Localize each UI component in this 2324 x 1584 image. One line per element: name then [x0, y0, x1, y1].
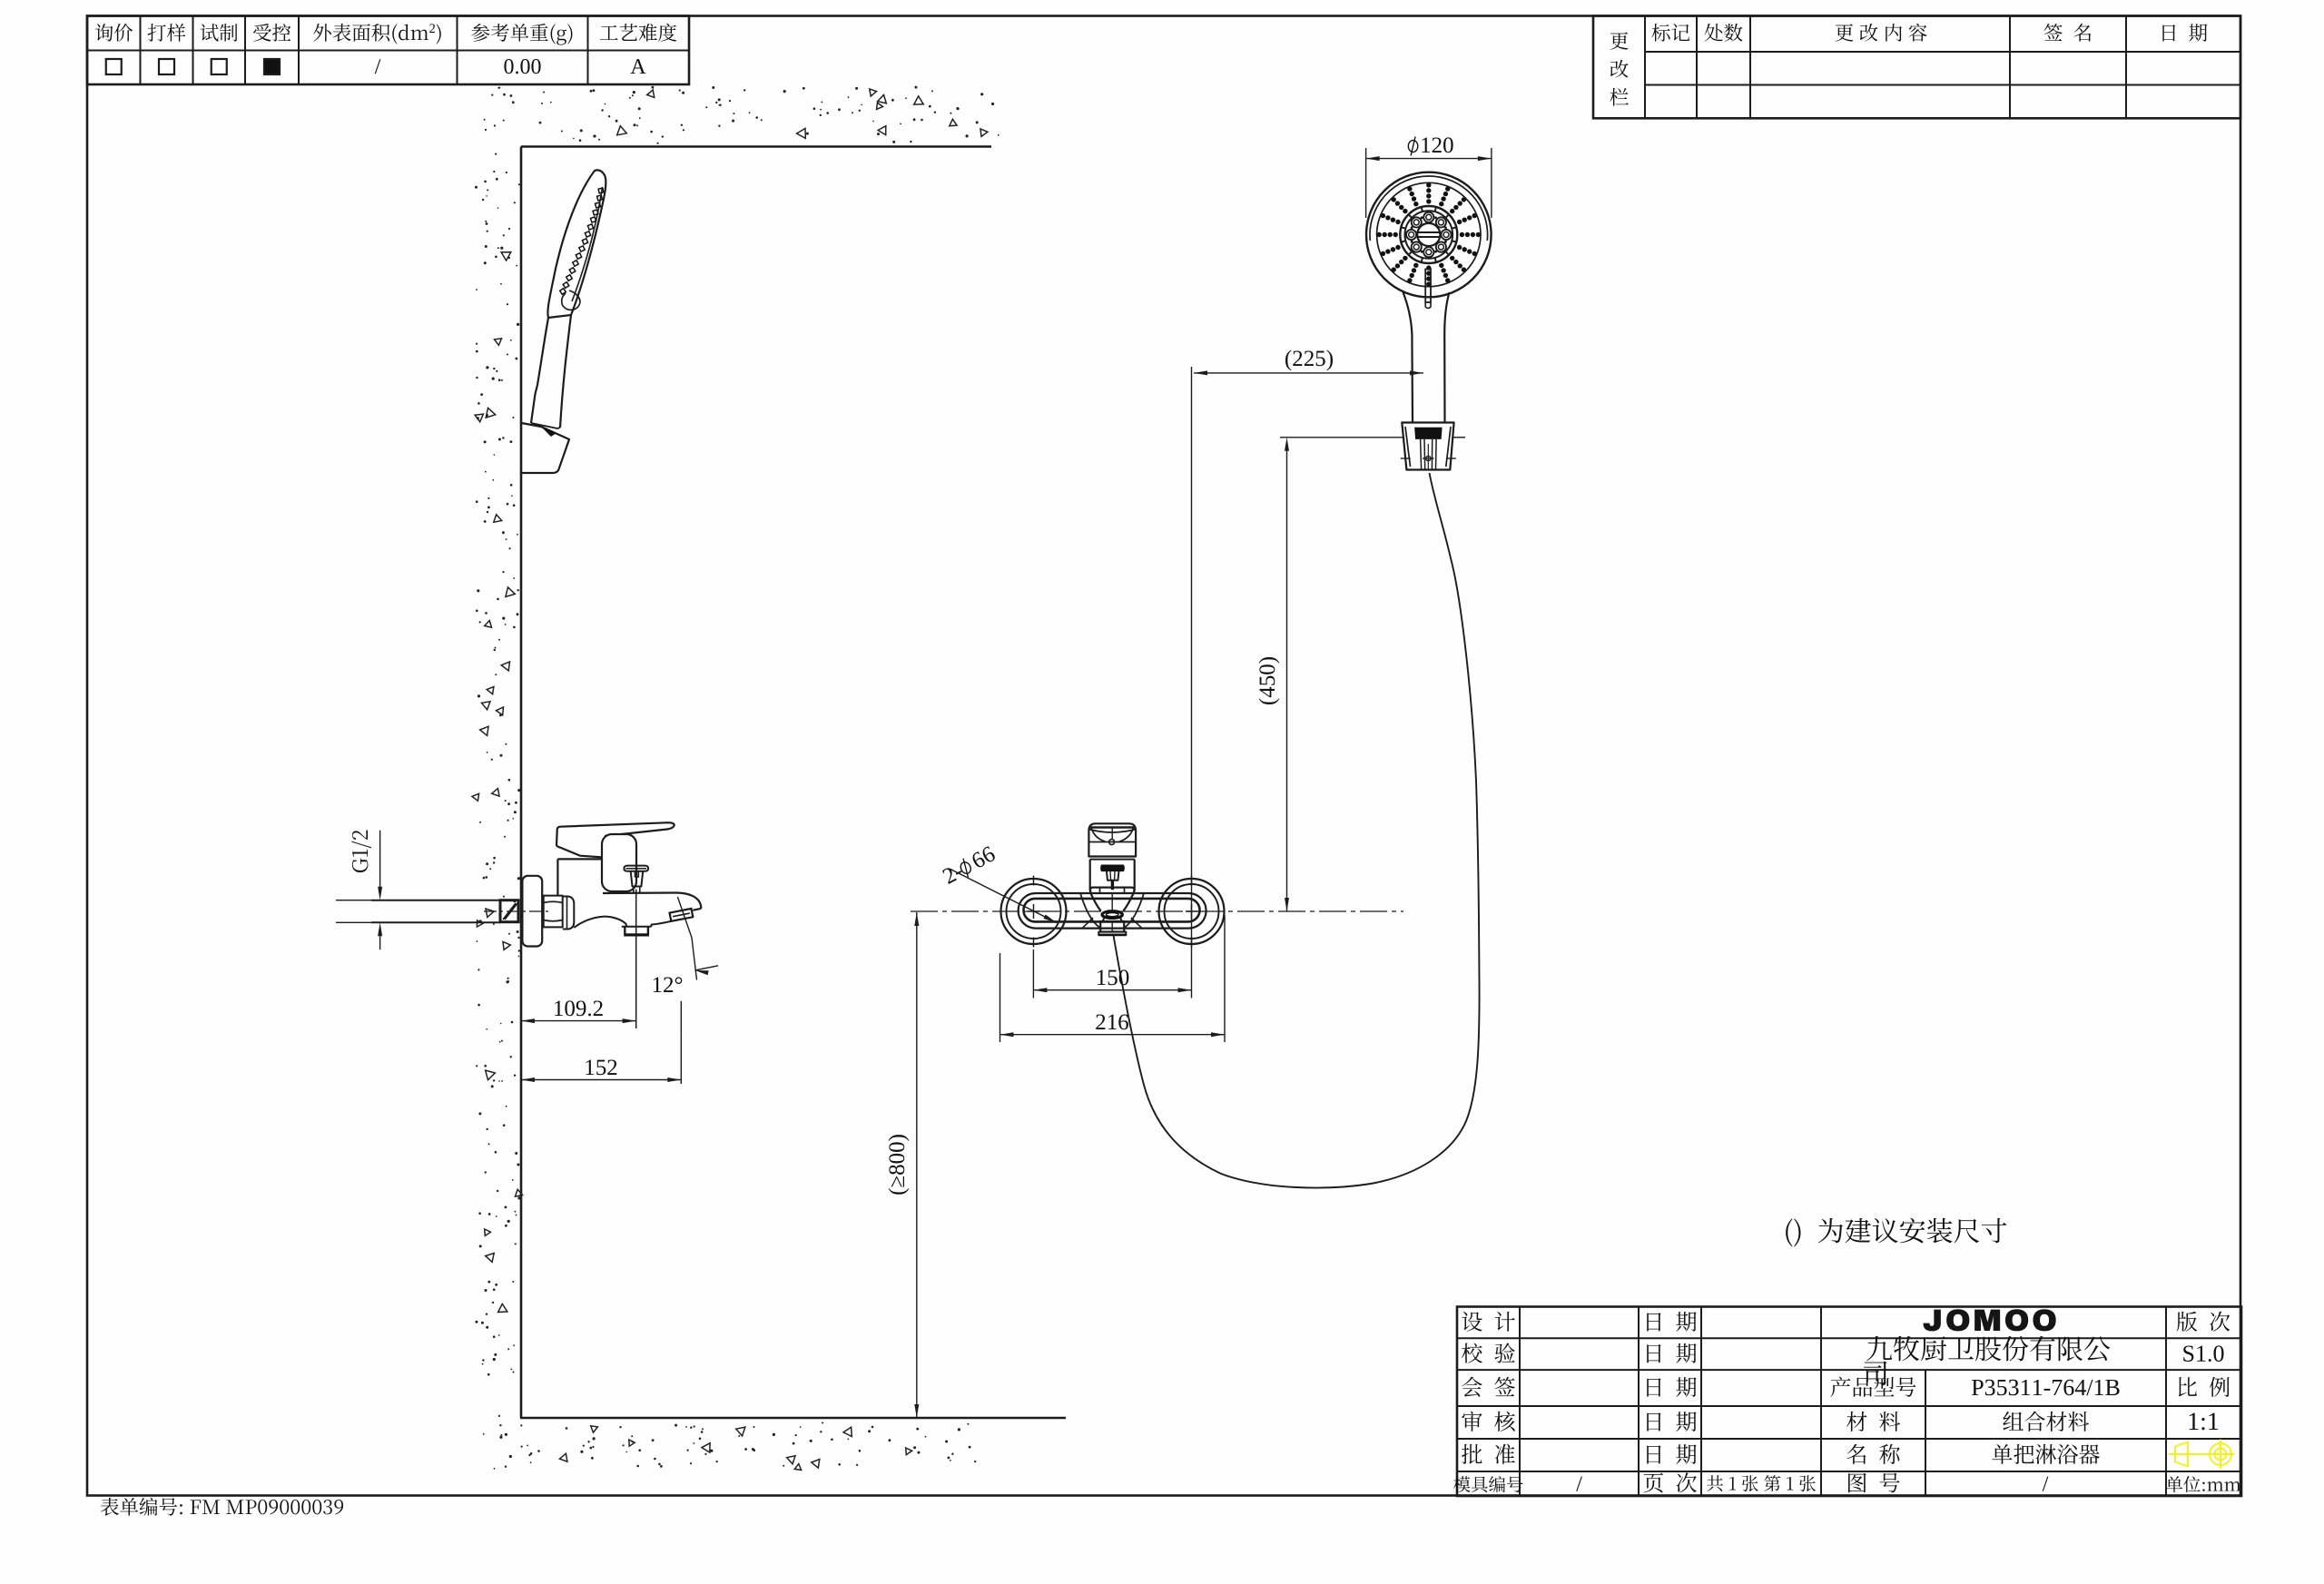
dim 450 line — [1286, 442, 1288, 911]
hand shower face inner line — [572, 187, 603, 301]
12deg arrow leader — [694, 966, 718, 970]
concrete stipple floor band — [710, 1450, 713, 1452]
G1/2 label — [351, 831, 371, 872]
shower face nozzle dots — [1426, 199, 1431, 203]
title label 批准 — [1462, 1444, 1515, 1464]
title label 日期 row3 — [1647, 1377, 1696, 1397]
JOMOO logo — [1923, 1309, 2055, 1331]
revision table grid — [1593, 16, 2240, 119]
title label 页次 — [1643, 1472, 1696, 1492]
faucet body side — [557, 858, 602, 860]
approval header 受控 — [253, 24, 290, 42]
value 外表面积 slash — [375, 59, 381, 74]
hex nut side — [544, 896, 563, 928]
holder nut dark band — [1414, 428, 1443, 439]
supply pipe — [371, 900, 500, 901]
approval header 打样 — [148, 24, 186, 42]
title value 单把淋浴器 — [1992, 1444, 2100, 1464]
dim 225 text — [1285, 350, 1333, 371]
left hole center mark — [1033, 904, 1035, 919]
projection symbol yellow — [2169, 1440, 2234, 1470]
knob lower band — [1090, 856, 1136, 858]
dim 216 — [1000, 1034, 1226, 1036]
aerator insert side — [670, 909, 694, 921]
approval header 外表面积(dm2) — [313, 24, 428, 44]
body bar front — [1019, 893, 1206, 929]
leader 2-phi66 — [950, 869, 1057, 923]
diverter front pin — [1111, 881, 1114, 890]
checkbox 询价 empty — [106, 59, 122, 74]
title label 比例 — [2179, 1377, 2230, 1397]
dim 225 line — [1194, 372, 1423, 374]
dim phi120 line — [1366, 158, 1492, 160]
faucet lever side — [556, 822, 675, 846]
title label 模具编号 — [1453, 1476, 1523, 1492]
valve bell front — [1090, 888, 1135, 911]
title value drawing slash — [2043, 1477, 2049, 1491]
dim 109.2 — [521, 1020, 636, 1022]
neck front — [1089, 860, 1091, 891]
shower retaining pin — [1425, 270, 1431, 303]
shower center hub — [1417, 223, 1440, 246]
title label 产品型号 — [1830, 1377, 1915, 1397]
title label 校验 — [1462, 1343, 1515, 1363]
dim phi120 extensions — [1365, 148, 1367, 218]
title value 组合材料 — [2003, 1412, 2089, 1432]
title label 会签 — [1462, 1377, 1515, 1397]
approval header 询价 — [95, 24, 133, 42]
dim 450 text — [1259, 657, 1280, 704]
revision header 日期 — [2162, 24, 2207, 41]
diverter front cap — [1101, 865, 1124, 871]
shower center nozzles — [1441, 230, 1451, 240]
title value mould slash — [1576, 1477, 1582, 1491]
12deg text — [654, 977, 683, 992]
dim >=800 line — [916, 912, 918, 1418]
revision col label 更改栏 — [1610, 32, 1629, 49]
title label 日期 row5 — [1647, 1444, 1696, 1464]
hand shower face nozzles side — [598, 188, 604, 193]
12deg vertical reference — [680, 1001, 682, 1035]
title label 审核 — [1462, 1412, 1514, 1432]
title label 设计 — [1462, 1312, 1514, 1332]
outlet nipple side — [622, 926, 652, 928]
handle knob front — [1088, 823, 1136, 856]
dim 152 — [521, 1079, 681, 1081]
diverter knob side — [624, 866, 648, 871]
holder clip wedge — [541, 427, 556, 437]
dim 150 extensions — [1032, 949, 1034, 999]
title value P35311 — [1972, 1380, 2120, 1395]
front outlet nipple — [1100, 921, 1124, 932]
approval header 试制 — [201, 24, 238, 42]
spout bottom side — [652, 921, 672, 927]
title label 单位mm — [2166, 1476, 2240, 1492]
front mounting centerline — [911, 910, 1403, 912]
shower hose — [1114, 473, 1480, 1188]
revision header 签名 — [2044, 24, 2092, 42]
title value S1.0 — [2183, 1345, 2223, 1362]
dim 216 extensions — [1000, 953, 1001, 1042]
body underside arch — [574, 917, 626, 928]
dim phi120 text — [1408, 141, 1418, 152]
company name line1 — [1866, 1336, 2110, 1362]
spout tip face — [693, 909, 701, 910]
hand shower hook loop — [562, 290, 580, 310]
pipe centerline — [484, 910, 549, 912]
title value 共1张第1张 — [1707, 1475, 1816, 1491]
floor line — [520, 1417, 1066, 1420]
dim 150 — [1033, 989, 1191, 991]
shower handle front — [1403, 292, 1413, 423]
hand shower holder side — [522, 423, 570, 473]
shower head outer circles — [1366, 172, 1492, 298]
holder inner lines — [1421, 439, 1437, 469]
footer form number — [101, 1498, 343, 1516]
title label 版次 — [2177, 1312, 2230, 1332]
right escutcheon — [1159, 879, 1225, 944]
right hole center mark — [1191, 904, 1193, 919]
12deg face plane line — [677, 897, 692, 938]
diverter pin and extension line 109.2 — [635, 890, 637, 1029]
ceiling line — [521, 145, 991, 148]
front outlet neck — [1103, 918, 1122, 921]
title label 日期 row2 — [1647, 1343, 1696, 1363]
dim >=800 text — [889, 1135, 910, 1195]
connector olive side — [563, 897, 575, 930]
concrete stipple wall band — [503, 120, 505, 122]
shower holder front cup — [1402, 423, 1453, 470]
revision header 更改内容 — [1836, 24, 1927, 42]
company name line2 司 — [1864, 1361, 1887, 1385]
wall face line — [520, 147, 523, 1419]
label 2-phi66 — [941, 845, 998, 887]
left escutcheon — [1001, 879, 1067, 944]
pipe thread fitting — [500, 900, 518, 922]
title block grid — [1457, 1307, 2241, 1497]
shower ring ticks — [1452, 227, 1456, 228]
title label 材料 — [1846, 1412, 1900, 1432]
checkbox 试制 empty — [212, 59, 227, 74]
shower inner ring — [1400, 206, 1457, 263]
checkbox 打样 empty — [159, 59, 174, 74]
dim 450 top extension — [1280, 437, 1403, 438]
dim 152 extension — [680, 1035, 682, 1084]
handle cap side — [602, 834, 636, 891]
body shoulder arcs — [1080, 893, 1099, 928]
approval table grid — [87, 16, 689, 85]
title label 图号 — [1848, 1473, 1900, 1493]
hand shower head side outline — [547, 170, 606, 318]
holder center mark — [1426, 456, 1431, 460]
revision header 标记 — [1651, 24, 1689, 42]
G1/2 dimension lines — [379, 831, 381, 893]
approval header 参考单重(g) — [471, 24, 572, 45]
hand shower handle side — [531, 315, 571, 428]
value 参考单重 0.00 — [504, 59, 540, 74]
title value 1:1 — [2190, 1413, 2219, 1431]
note suggest install size — [1786, 1218, 2006, 1247]
approval header 工艺难度 — [600, 24, 676, 42]
revision header 处数 — [1705, 24, 1743, 42]
spout top side — [603, 893, 701, 909]
value 工艺难度 A — [631, 59, 646, 74]
title label 日期 row1 — [1647, 1312, 1696, 1332]
title label 名称 — [1846, 1444, 1900, 1464]
title label 日期 row4 — [1647, 1412, 1696, 1432]
concrete stipple ceiling band — [821, 102, 822, 103]
wall flange side — [522, 876, 542, 947]
checkbox 受控 filled — [264, 59, 280, 74]
